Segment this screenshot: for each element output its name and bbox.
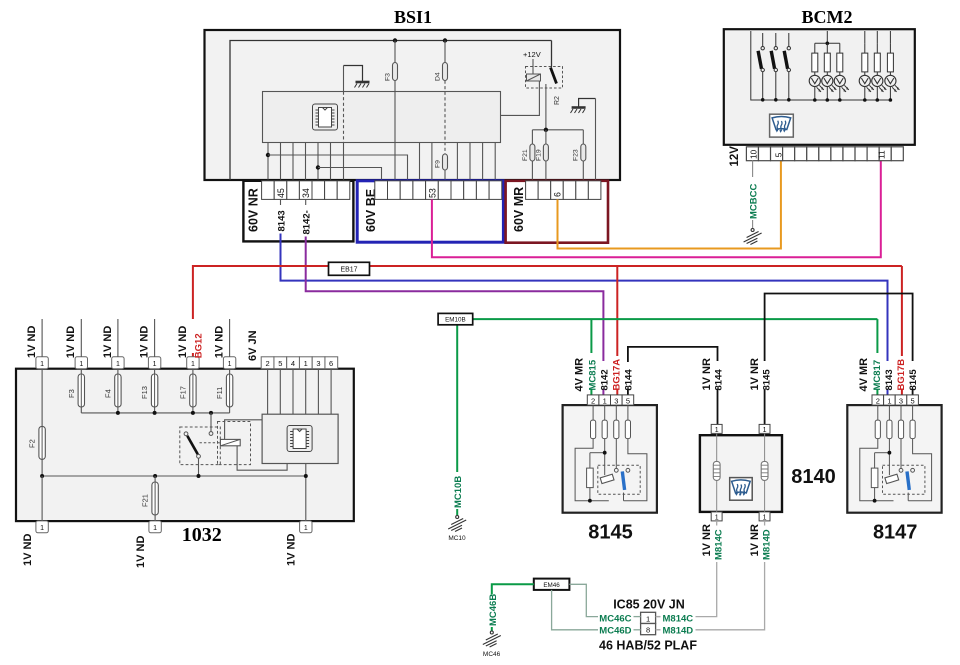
relay R2 xyxy=(526,59,563,105)
svg-text:8145: 8145 xyxy=(588,522,633,544)
fuse F21 xyxy=(141,476,159,521)
wire 8145 black xyxy=(765,294,913,425)
label MC46C xyxy=(599,614,631,625)
wire heater left lead xyxy=(716,433,718,512)
svg-text:1: 1 xyxy=(715,514,719,521)
svg-text:2: 2 xyxy=(876,396,880,405)
svg-text:BG17A: BG17A xyxy=(611,359,622,391)
label MC815 xyxy=(587,359,598,390)
connector 60V MR pin cells xyxy=(526,181,601,200)
svg-text:BCM2: BCM2 xyxy=(802,7,853,27)
chip icon (1032) xyxy=(287,426,312,452)
pin 34 xyxy=(301,188,311,198)
label 4V MR (8145) xyxy=(574,358,586,392)
svg-text:EB17: EB17 xyxy=(340,267,357,274)
splice EM46 xyxy=(534,579,570,590)
label 1V ND (bottom A) xyxy=(22,534,34,566)
svg-text:F19: F19 xyxy=(535,149,542,161)
lamp L5 xyxy=(872,31,887,102)
wire MC46B green xyxy=(492,584,534,631)
svg-text:1: 1 xyxy=(153,525,157,532)
svg-text:3: 3 xyxy=(614,396,618,405)
node junctions on bottom bus xyxy=(40,474,308,478)
label BG17B xyxy=(896,359,907,391)
svg-text:F23: F23 xyxy=(573,149,580,161)
svg-text:5: 5 xyxy=(911,396,915,405)
node junction pin1 xyxy=(266,153,270,157)
svg-text:F21: F21 xyxy=(141,494,150,507)
wire fuse feed bus xyxy=(532,129,583,131)
svg-text:MCBCC: MCBCC xyxy=(749,184,760,219)
wire stubs above top pins xyxy=(42,319,230,357)
svg-text:8142: 8142 xyxy=(599,369,610,390)
wires U1 pins to 60V BE xyxy=(420,143,496,181)
pin 10 xyxy=(748,149,758,159)
svg-text:8142-: 8142- xyxy=(302,210,313,234)
svg-text:8144: 8144 xyxy=(714,369,725,391)
svg-text:1: 1 xyxy=(603,396,607,405)
svg-text:MC46B: MC46B xyxy=(488,594,499,626)
wire MCBCC ground drop xyxy=(752,160,754,228)
label 8145 (8147 side) xyxy=(908,369,919,391)
svg-text:1: 1 xyxy=(304,525,308,532)
label 1V ND (pin C) xyxy=(102,326,114,358)
svg-text:6: 6 xyxy=(329,359,333,368)
connector 60V BE xyxy=(357,181,503,242)
label BCM2 xyxy=(802,7,853,27)
wire dash cell8 right xyxy=(656,629,661,631)
label 8142 xyxy=(599,369,610,390)
svg-text:R2: R2 xyxy=(554,96,561,105)
svg-text:1V NR: 1V NR xyxy=(749,524,761,556)
label 8144 (8145 side) xyxy=(623,369,634,391)
svg-text:1: 1 xyxy=(40,525,44,532)
svg-text:F17: F17 xyxy=(179,386,188,399)
label 1V NR (top-left) xyxy=(701,358,713,390)
defrost icon (BCM2) xyxy=(770,114,794,137)
wire EM46 to MC46D xyxy=(552,590,598,630)
fuse F13 xyxy=(140,369,158,413)
svg-text:1: 1 xyxy=(153,361,157,368)
wire bottom bus xyxy=(42,475,306,477)
svg-text:6V JN: 6V JN xyxy=(247,330,259,361)
svg-text:1: 1 xyxy=(40,361,44,368)
svg-text:8140: 8140 xyxy=(791,466,836,488)
label MC46B xyxy=(488,594,499,626)
ground (BSI1 right) xyxy=(571,99,596,114)
fuse F21 xyxy=(522,130,535,181)
module (1032 electronics) xyxy=(262,414,338,463)
svg-text:MC46C: MC46C xyxy=(599,614,631,625)
svg-text:EM10B: EM10B xyxy=(445,317,466,324)
wire lamp bracket xyxy=(815,31,840,43)
fuse F19 xyxy=(535,130,548,181)
svg-text:46 HAB/52 PLAF: 46 HAB/52 PLAF xyxy=(599,639,697,653)
label M814D (IC85 side) xyxy=(663,626,694,637)
wire coil to module xyxy=(225,420,263,440)
node bracket junction xyxy=(826,42,830,46)
lamp L1 xyxy=(809,43,824,102)
fuse F3 xyxy=(67,369,85,413)
connector 6V JN cells xyxy=(261,357,338,369)
label 1V ND (pin D) xyxy=(139,326,151,358)
svg-text:8143: 8143 xyxy=(277,210,288,231)
svg-text:10: 10 xyxy=(748,149,758,159)
switch S3 xyxy=(784,33,790,102)
wire relay coil to U1 xyxy=(501,81,540,115)
label 8147 xyxy=(873,522,918,544)
svg-text:1V ND: 1V ND xyxy=(22,534,34,566)
label 8145 (8140 side) xyxy=(761,369,772,391)
svg-text:8144: 8144 xyxy=(623,369,634,391)
pin 11 xyxy=(876,150,886,159)
connector cell top-right (8140 pin 1) xyxy=(759,424,770,434)
svg-text:1V ND: 1V ND xyxy=(65,326,77,358)
lamp L4 xyxy=(859,31,874,102)
svg-text:1V ND: 1V ND xyxy=(139,326,151,358)
ground MC46 xyxy=(483,631,501,658)
wire fuse output bus xyxy=(81,412,229,414)
svg-text:1V ND: 1V ND xyxy=(102,326,114,358)
wire 8142 violet xyxy=(306,237,604,395)
svg-text:1V NR: 1V NR xyxy=(701,358,713,390)
connector IC85 cell 8 xyxy=(641,624,656,635)
fuse F23 xyxy=(573,130,586,181)
lamp L6 xyxy=(885,31,900,102)
svg-text:8: 8 xyxy=(646,626,650,635)
svg-text:M814C: M814C xyxy=(663,614,694,625)
pin 5 xyxy=(774,152,784,157)
pin 1 xyxy=(887,396,891,405)
svg-text:1: 1 xyxy=(763,514,767,521)
wire module to bottom bus xyxy=(305,464,307,522)
wire M814D gray xyxy=(657,521,765,630)
label 1V ND (bottom C) xyxy=(286,534,298,566)
module 1032 body xyxy=(16,369,354,521)
label IC85 20V JN xyxy=(613,598,685,612)
svg-text:BG17B: BG17B xyxy=(896,359,907,391)
wire branch to 60V BE pin3 xyxy=(268,155,408,181)
ground MCBCC xyxy=(744,229,762,245)
+12V label xyxy=(523,50,541,59)
label 8143 xyxy=(277,210,288,231)
label BG12 xyxy=(194,333,205,358)
module BSI1 body xyxy=(205,30,621,180)
pin 3 xyxy=(899,396,903,405)
svg-text:1V NR: 1V NR xyxy=(749,358,761,390)
ground (BSI1 left) xyxy=(344,66,370,88)
svg-text:11: 11 xyxy=(876,150,886,159)
wire 8144 black xyxy=(628,347,718,425)
node junction on rail at D4 xyxy=(443,38,447,42)
connector 60V MR xyxy=(506,181,608,243)
connector pin top D (F13) xyxy=(148,357,160,369)
wire ground pin drop xyxy=(595,99,597,181)
svg-text:4: 4 xyxy=(291,359,295,368)
svg-text:3: 3 xyxy=(899,396,903,405)
label 8144 (8140 side) xyxy=(714,369,725,391)
splice EB17 xyxy=(329,262,370,275)
connector cell top-left (8140 pin 1) xyxy=(711,424,722,434)
svg-text:MC817: MC817 xyxy=(872,360,883,391)
svg-text:F2: F2 xyxy=(28,439,37,448)
relay 8145 body xyxy=(563,405,657,513)
svg-text:5: 5 xyxy=(774,152,784,157)
svg-text:F13: F13 xyxy=(140,386,149,399)
module BCM2 body xyxy=(724,29,915,145)
label 1V ND (pin A) xyxy=(26,326,38,358)
connector pin top C (F4) xyxy=(112,357,124,369)
svg-text:53: 53 xyxy=(428,188,438,198)
svg-text:MC10: MC10 xyxy=(448,535,466,542)
connector 12V pin cells xyxy=(746,147,903,161)
heater element left xyxy=(713,461,720,480)
switch S1 xyxy=(758,33,764,102)
svg-text:1: 1 xyxy=(116,361,120,368)
fuse F9 xyxy=(435,154,448,170)
svg-text:F4: F4 xyxy=(104,389,113,398)
svg-text:3: 3 xyxy=(316,359,320,368)
svg-text:4V MR: 4V MR xyxy=(858,358,870,392)
fuse F2 xyxy=(28,369,46,476)
wire pin A drop xyxy=(41,476,43,521)
svg-text:2: 2 xyxy=(266,359,270,368)
connector cells 8147 xyxy=(872,395,918,405)
relay coil (1032) xyxy=(220,439,240,445)
pin 1 xyxy=(603,396,607,405)
label 1V ND (pin B) xyxy=(65,326,77,358)
svg-text:60V NR: 60V NR xyxy=(247,188,261,232)
label 8145 xyxy=(588,522,633,544)
label 4V MR (8147) xyxy=(858,358,870,392)
svg-text:1V NR: 1V NR xyxy=(701,524,713,556)
svg-text:EM46: EM46 xyxy=(543,582,560,589)
defrost icon (8140) xyxy=(730,478,753,501)
ground MC10 xyxy=(448,516,466,543)
label 1V NR (bottom-right) xyxy=(749,524,761,556)
svg-text:1V ND: 1V ND xyxy=(135,536,147,568)
label MCBCC xyxy=(749,184,760,219)
pin 2 xyxy=(591,396,595,405)
node junctions on fuse bus xyxy=(116,411,213,415)
wire heater right lead xyxy=(764,433,766,512)
connector pin bottom C xyxy=(300,521,312,533)
module U1 inner box xyxy=(263,92,501,143)
wire BCM2 internal left rail xyxy=(751,31,891,100)
node junction pin5 xyxy=(316,165,320,169)
resistor 8140 body xyxy=(700,435,782,512)
label M814C (IC85 side) xyxy=(663,614,694,625)
label 1V ND (bottom B) xyxy=(135,536,147,568)
pin 53 xyxy=(428,188,438,198)
label 46 HAB/52 PLAF xyxy=(599,639,697,653)
wire dash cell1 left xyxy=(634,616,641,618)
svg-text:2: 2 xyxy=(591,396,595,405)
wire 8143 stub xyxy=(280,199,282,205)
wire branch to 60V BE pin1 xyxy=(318,168,382,181)
wire D4/F9 branch xyxy=(444,41,446,181)
fuse F11 xyxy=(215,369,233,413)
chip icon U1 xyxy=(313,104,338,130)
relay 8147 body xyxy=(847,405,941,513)
svg-text:1: 1 xyxy=(79,361,83,368)
pin 2 xyxy=(876,396,880,405)
label 8143 (8147 side) xyxy=(884,369,895,390)
switch K1 (1032) xyxy=(184,413,213,476)
svg-text:M814C: M814C xyxy=(714,529,725,560)
svg-text:12V: 12V xyxy=(729,146,741,167)
label 8140 xyxy=(791,466,836,488)
node junction at F19 xyxy=(544,128,548,132)
fuse F3 xyxy=(385,63,398,82)
svg-text:1V ND: 1V ND xyxy=(214,326,226,358)
connector cell bottom-right (8140 pin 1) xyxy=(759,512,770,522)
wires 6V JN pins to module xyxy=(268,369,332,415)
wire EB17 red bus xyxy=(193,266,902,396)
label M814D (8140 side) xyxy=(761,529,772,560)
wire top supply rail xyxy=(230,41,552,181)
wire dash cell1 right xyxy=(656,616,661,618)
connector 60V NR pin cells xyxy=(262,181,350,200)
svg-text:MC46: MC46 xyxy=(483,651,501,658)
svg-text:1032: 1032 xyxy=(182,524,222,546)
svg-text:F21: F21 xyxy=(522,149,529,161)
svg-text:4V MR: 4V MR xyxy=(574,358,586,392)
svg-text:F9: F9 xyxy=(435,160,442,168)
wire left dashed into U1 xyxy=(343,66,345,181)
connector 60V NR xyxy=(243,181,353,242)
label BSI1 xyxy=(394,7,432,27)
label 6V JN xyxy=(247,330,259,361)
svg-text:1V ND: 1V ND xyxy=(177,326,189,358)
connector pin top F (F11) xyxy=(223,357,235,369)
connector 60V BE pin cells xyxy=(375,181,502,200)
wire coil return xyxy=(237,446,287,470)
pins 2 5 4 1 3 6 xyxy=(266,359,334,368)
svg-text:F11: F11 xyxy=(215,387,224,399)
lamp L3 xyxy=(834,43,849,102)
wire dash cell8 left xyxy=(634,629,641,631)
svg-text:MC46D: MC46D xyxy=(599,626,631,637)
dashed relay box (1032) xyxy=(180,422,251,465)
wire EM46 to MC46C xyxy=(569,584,598,616)
svg-text:8147: 8147 xyxy=(873,522,918,544)
splice EM10B xyxy=(438,313,473,324)
fuse D4 xyxy=(435,63,448,82)
connector pin bottom A xyxy=(36,521,48,533)
connector pin top E (F17 / BG12) xyxy=(187,357,199,369)
label MC817 xyxy=(872,360,883,391)
pin 5 xyxy=(626,396,630,405)
dashed linkage xyxy=(200,442,220,444)
label M814C (8140 side) xyxy=(714,529,725,560)
connector pin top B (F3) xyxy=(75,357,87,369)
lamp L2 xyxy=(822,43,837,102)
svg-text:M814D: M814D xyxy=(663,626,694,637)
svg-text:BSI1: BSI1 xyxy=(394,7,432,27)
pin 45 xyxy=(276,188,286,198)
label 1V ND (pin F) xyxy=(214,326,226,358)
svg-text:MC10B: MC10B xyxy=(453,476,464,508)
svg-text:1V ND: 1V ND xyxy=(286,534,298,566)
switch S2 xyxy=(771,33,777,102)
label 1V NR (bottom-left) xyxy=(701,524,713,556)
label 1032 xyxy=(182,524,222,546)
pin 6 xyxy=(553,192,563,197)
svg-text:8145: 8145 xyxy=(908,369,919,391)
heater element right xyxy=(761,461,768,480)
label 12V xyxy=(729,146,741,167)
wire relay output xyxy=(545,84,547,130)
svg-text:1: 1 xyxy=(191,361,195,368)
svg-text:8145: 8145 xyxy=(761,369,772,391)
connector IC85 cell 1 xyxy=(641,612,656,623)
label MC46D xyxy=(599,626,631,637)
connector cells 8145 xyxy=(587,395,633,405)
svg-text:6: 6 xyxy=(553,192,563,197)
label MC10B xyxy=(453,476,464,508)
svg-text:1: 1 xyxy=(228,361,232,368)
wires U1 pins to 60V NR xyxy=(268,143,331,181)
pin 5 xyxy=(911,396,915,405)
connector pin top A (F2 feed) xyxy=(36,357,48,369)
svg-text:MC815: MC815 xyxy=(587,359,598,390)
svg-text:1V ND: 1V ND xyxy=(26,326,38,358)
svg-text:1: 1 xyxy=(887,396,891,405)
svg-text:F3: F3 xyxy=(67,389,76,398)
label 1V NR (top-right) xyxy=(749,358,761,390)
fuse F4 xyxy=(104,369,122,413)
svg-text:F3: F3 xyxy=(385,73,392,81)
svg-text:BG12: BG12 xyxy=(194,333,205,358)
svg-text:M814D: M814D xyxy=(761,529,772,560)
connector cell bottom-left (8140 pin 1) xyxy=(711,512,722,522)
wire 8142 stub xyxy=(305,199,307,205)
wire M814C gray xyxy=(657,521,717,617)
svg-text:IC85 20V JN: IC85 20V JN xyxy=(613,598,685,612)
node junction on rail at F3 xyxy=(393,38,397,42)
pin 3 xyxy=(614,396,618,405)
svg-text:45: 45 xyxy=(276,188,286,198)
label 8142- xyxy=(302,210,313,234)
svg-text:1: 1 xyxy=(763,427,767,434)
svg-text:34: 34 xyxy=(301,188,311,198)
svg-text:8143: 8143 xyxy=(884,369,895,390)
svg-text:1: 1 xyxy=(646,614,650,623)
svg-text:1: 1 xyxy=(304,359,308,368)
fuse F17 xyxy=(179,369,197,413)
svg-text:5: 5 xyxy=(626,396,630,405)
wire 6/BCM2-5 orange xyxy=(558,160,781,248)
wire 8143 blue xyxy=(281,234,888,396)
label BG17A xyxy=(611,359,622,391)
wire 53/BCM2-11 magenta xyxy=(432,160,881,257)
wire rail to relay switch xyxy=(551,41,553,68)
svg-text:1: 1 xyxy=(715,427,719,434)
svg-text:D4: D4 xyxy=(435,72,442,81)
label 1V ND (pin E) xyxy=(177,326,189,358)
svg-text:+12V: +12V xyxy=(523,50,541,59)
connector pin bottom B (F21) xyxy=(149,521,161,533)
svg-text:5: 5 xyxy=(278,359,282,368)
wire EM10B green bus xyxy=(457,319,877,515)
wire F3 branch xyxy=(394,41,396,181)
svg-text:60V MR: 60V MR xyxy=(512,187,526,232)
